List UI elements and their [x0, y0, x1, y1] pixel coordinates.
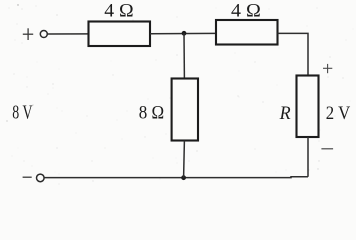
svg-text:R: R	[279, 103, 291, 124]
junction dot bottom	[181, 175, 186, 180]
plus sign (source positive terminal)	[23, 28, 33, 40]
minus sign (source negative terminal)	[23, 176, 32, 178]
wire 8Ω bottom	[183, 141, 186, 178]
svg-text:2 V: 2 V	[326, 103, 351, 124]
bottom wire	[44, 176, 308, 179]
terminal circle bottom	[37, 174, 45, 182]
minus sign right	[321, 148, 333, 150]
wire top-left	[47, 33, 88, 35]
resistor 4Ω left box	[89, 22, 151, 47]
plus sign right	[323, 64, 332, 73]
wire R bottom	[307, 137, 309, 177]
wire 8Ω top	[183, 33, 185, 78]
svg-text:4 Ω: 4 Ω	[104, 1, 133, 22]
node junction dot top	[182, 31, 187, 36]
terminal circle top	[40, 31, 47, 38]
svg-text:8 Ω: 8 Ω	[139, 103, 164, 124]
wire top-middle	[150, 32, 216, 34]
resistor 4Ω right box	[216, 20, 278, 45]
resistor 8Ω box	[172, 79, 198, 141]
svg-text:8 V: 8 V	[12, 102, 32, 123]
wire top-right	[278, 33, 309, 75]
resistor R box	[297, 76, 319, 138]
svg-text:4 Ω: 4 Ω	[231, 1, 261, 22]
